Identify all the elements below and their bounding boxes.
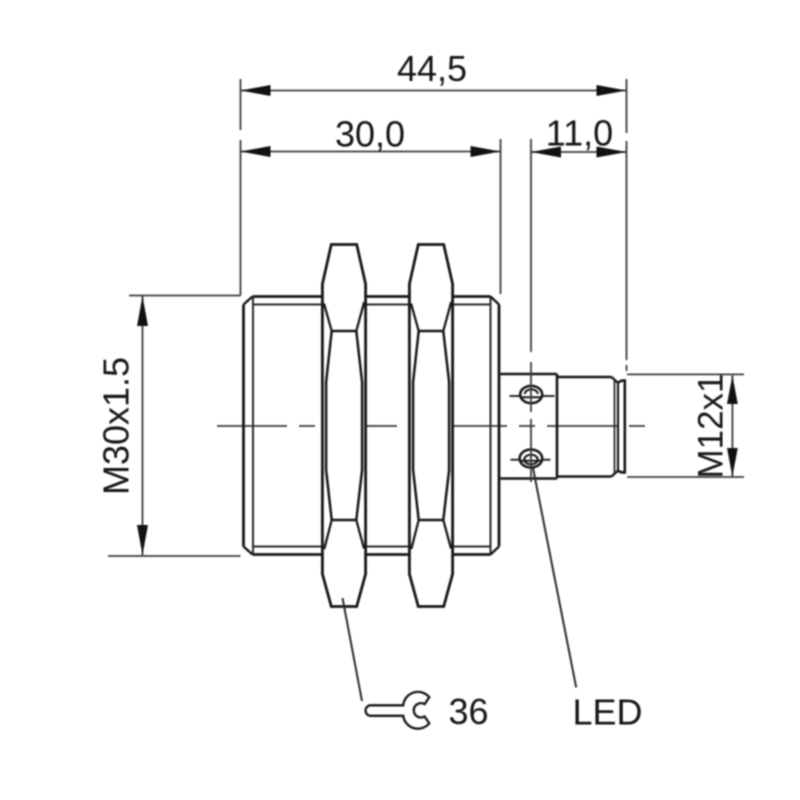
hex nut 1 chamfer ticks: [324, 302, 364, 549]
svg-text:44,5: 44,5: [397, 48, 467, 89]
body M30 barrel bottom crest edge: [253, 553, 491, 556]
LED crosshair 2: [510, 459, 550, 461]
M30 arrow up: [137, 296, 148, 326]
M30 extension line bottom: [108, 555, 241, 557]
main horizontal centerline: [217, 425, 648, 427]
body thread root line top: [253, 304, 491, 306]
connector step section: [501, 374, 558, 479]
body left sensing face: [242, 305, 245, 547]
svg-text:M12x1: M12x1: [692, 373, 731, 478]
LED 1 lens arc: [525, 389, 538, 394]
LED 2 window: [520, 450, 543, 468]
M30 dimension line: [142, 296, 144, 555]
M12 extension line top: [627, 373, 744, 375]
body left chamfer diagonals: [244, 297, 253, 555]
extension line 30,0 right: [500, 139, 502, 294]
svg-text:M30x1.5: M30x1.5: [96, 357, 137, 495]
dimension 30,0 line: [241, 151, 501, 153]
M12 extension line bottom: [627, 476, 744, 478]
arrow 44,5 right: [597, 85, 627, 96]
body thread root line bottom: [253, 546, 491, 548]
hex nut 2 chamfer ticks: [411, 302, 451, 549]
arrow 44,5 left: [241, 85, 271, 96]
hex nut 1 outer silhouette: [322, 245, 365, 607]
M12 end cap: [618, 381, 625, 473]
body right chamfer circle line: [490, 297, 492, 555]
dimension 11,0 line: [531, 151, 627, 153]
M12 barrel chamfers: [612, 377, 618, 477]
arrow 11,0 left: [531, 147, 561, 158]
body M30 barrel top crest edge: [253, 295, 491, 298]
hex nut 2 outer silhouette: [409, 245, 452, 607]
svg-text:LED: LED: [573, 692, 643, 733]
LED leader line: [533, 468, 576, 687]
LED 1 window: [520, 386, 542, 403]
extension line left (44,5 / 30,0): [240, 79, 242, 296]
dimension 44,5 line: [241, 90, 627, 92]
M12 dimension line: [731, 376, 733, 477]
svg-text:30,0: 30,0: [335, 114, 405, 155]
M12 arrow down: [727, 448, 738, 477]
svg-text:36: 36: [449, 691, 489, 732]
M12 arrow up: [727, 376, 738, 405]
M30 arrow down: [137, 525, 148, 555]
M30 extension line top: [129, 295, 241, 297]
hex nut 1 front face barrel: [326, 331, 362, 520]
M12 thread relief line: [614, 380, 616, 475]
LED 1 equator: [520, 396, 542, 398]
M12 connector barrel: [557, 377, 612, 477]
body right face: [498, 305, 501, 547]
LED 2 equator: [520, 460, 543, 462]
arrow 30,0 right: [471, 146, 501, 157]
LED 2 lens: [524, 455, 538, 465]
LED crosshair 1: [510, 395, 555, 397]
wrench leader line: [343, 598, 363, 701]
svg-text:11,0: 11,0: [546, 113, 613, 154]
arrow 11,0 right: [597, 147, 627, 158]
body right chamfer diagonals: [491, 297, 500, 555]
arrow 30,0 left: [241, 146, 271, 157]
hex nut 2 front face barrel: [413, 331, 449, 520]
LED axis / 11.0 extension line: [530, 139, 532, 482]
body left chamfer circle line: [252, 297, 254, 555]
wrench symbol: [366, 692, 430, 729]
M12 end shoulder line: [617, 383, 619, 472]
extension line right (44,5 / 11,0): [626, 79, 628, 371]
